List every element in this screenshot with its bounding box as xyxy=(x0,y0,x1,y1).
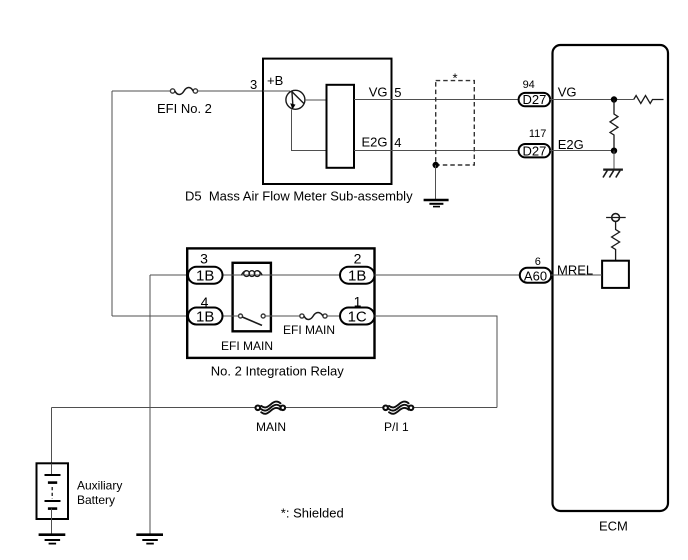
svg-text:*: * xyxy=(452,71,457,86)
wire: main feed bottom rail xyxy=(51,407,497,409)
relay coil box xyxy=(233,263,271,332)
relay terminal 1B pin 3 xyxy=(188,267,223,285)
wire: transistor base to sensing element xyxy=(305,99,327,101)
ground G2 (below relay rail) xyxy=(136,535,163,544)
svg-text:VG: VG xyxy=(558,85,577,100)
wire: relay pin 1 right and down to main feed xyxy=(375,316,498,408)
svg-text:D27: D27 xyxy=(522,92,546,107)
junction E2G node xyxy=(611,148,617,154)
shield (dashed) xyxy=(436,71,475,166)
svg-text:EFI MAIN: EFI MAIN xyxy=(221,339,273,353)
svg-text:VG: VG xyxy=(369,85,388,100)
wire: +B into transistor xyxy=(263,90,290,92)
connector A60 pin 6 xyxy=(520,268,551,284)
svg-text:D27: D27 xyxy=(522,143,546,158)
svg-text:ECM: ECM xyxy=(599,518,628,533)
ground G1 (battery) xyxy=(39,535,66,544)
wire: horizontal to relay pin 4 xyxy=(112,315,189,317)
relay terminal 1C pin 1 xyxy=(340,308,375,326)
svg-text:E2G: E2G xyxy=(361,134,387,149)
svg-text:1C: 1C xyxy=(348,308,367,325)
svg-text:D5 Mass Air Flow Meter Sub-as: D5 Mass Air Flow Meter Sub-assembly xyxy=(185,189,413,204)
relay switch xyxy=(239,314,266,325)
auxiliary battery xyxy=(37,463,69,519)
svg-text:P/I 1: P/I 1 xyxy=(384,420,409,434)
connector D27 pin 117 xyxy=(519,143,551,158)
wire: VG inside ECM xyxy=(550,99,634,101)
svg-text:*: Shielded: *: Shielded xyxy=(281,506,344,521)
junction: shield drain xyxy=(433,162,439,168)
svg-text:94: 94 xyxy=(523,79,535,91)
wire: relay pin 3 to ground rail xyxy=(150,274,189,276)
wire: coil wire pin3 to pin2 xyxy=(223,274,341,276)
resistor R2 (vertical, VG to E2G) xyxy=(610,100,618,151)
D5 Mass Air Flow Meter box xyxy=(263,59,392,184)
svg-text:Auxiliary: Auxiliary xyxy=(77,479,122,493)
MREL driver box xyxy=(602,261,629,288)
wire: contact to EFI MAIN fuse xyxy=(265,315,340,317)
svg-text:6: 6 xyxy=(535,256,541,268)
relay coil xyxy=(241,271,262,277)
wire: E2G inside ECM xyxy=(550,150,614,152)
svg-text:1B: 1B xyxy=(196,268,214,285)
svg-text:EFI No. 2: EFI No. 2 xyxy=(157,101,212,116)
fusible link P/I 1 xyxy=(383,401,413,413)
resistor R3 (vertical, MREL pull-up) xyxy=(612,221,620,260)
fuse EFI MAIN xyxy=(300,313,327,320)
wire: battery positive lead xyxy=(50,408,52,464)
svg-text:MAIN: MAIN xyxy=(256,420,286,434)
svg-text:No. 2 Integration Relay: No. 2 Integration Relay xyxy=(211,363,344,378)
resistor R1 (horizontal, VG pull) xyxy=(634,96,664,104)
wire: transistor emitter down and right to element xyxy=(292,109,327,150)
fusible link MAIN xyxy=(255,401,285,413)
wire: ground rail vertical x=150 xyxy=(149,275,151,534)
svg-text:117: 117 xyxy=(529,128,547,140)
wire: relay pin 2 to ECM MREL xyxy=(375,274,520,276)
svg-text:5: 5 xyxy=(394,85,401,100)
svg-text:3: 3 xyxy=(250,77,257,92)
wire: VG from MAF to connector D27 xyxy=(354,99,519,101)
svg-text:2: 2 xyxy=(354,251,362,267)
power terminal (circle) above MREL driver xyxy=(606,214,626,222)
fuse EFI No. 2 xyxy=(170,88,197,95)
No. 2 Integration Relay box xyxy=(187,248,374,358)
wire: battery feed top horizontal to MAF +B xyxy=(112,90,263,92)
relay terminal 1B pin 4 xyxy=(188,308,223,326)
connector D27 pin 94 xyxy=(519,92,551,107)
svg-text:1B: 1B xyxy=(348,268,366,285)
relay terminal 1B pin 2 xyxy=(340,267,375,285)
chassis ground (ECM) xyxy=(603,170,623,178)
svg-text:Battery: Battery xyxy=(77,493,115,507)
MAF sensing element xyxy=(327,85,355,168)
wire: battery negative to ground xyxy=(50,519,52,534)
svg-text:A60: A60 xyxy=(524,268,547,283)
svg-text:+B: +B xyxy=(267,73,283,88)
svg-text:E2G: E2G xyxy=(558,137,584,152)
junction VG node xyxy=(611,96,617,102)
wire: shield drain to ground xyxy=(435,165,437,200)
svg-text:3: 3 xyxy=(200,251,208,267)
transistor (MAF internal) xyxy=(286,90,305,109)
wire: switch wire pin4 to contact xyxy=(223,315,239,317)
wire: MREL inside ECM xyxy=(551,274,602,276)
wire: E2G to chassis ground xyxy=(613,151,615,170)
wire: left vertical from +B feed down to relay pin 4 xyxy=(111,91,113,316)
wire: E2G from MAF to connector D27 xyxy=(354,150,519,152)
ECM box xyxy=(553,45,669,511)
svg-text:1B: 1B xyxy=(196,308,214,325)
svg-text:EFI MAIN: EFI MAIN xyxy=(283,323,335,337)
ground G3 (shield) xyxy=(424,200,449,207)
svg-text:4: 4 xyxy=(394,135,401,150)
